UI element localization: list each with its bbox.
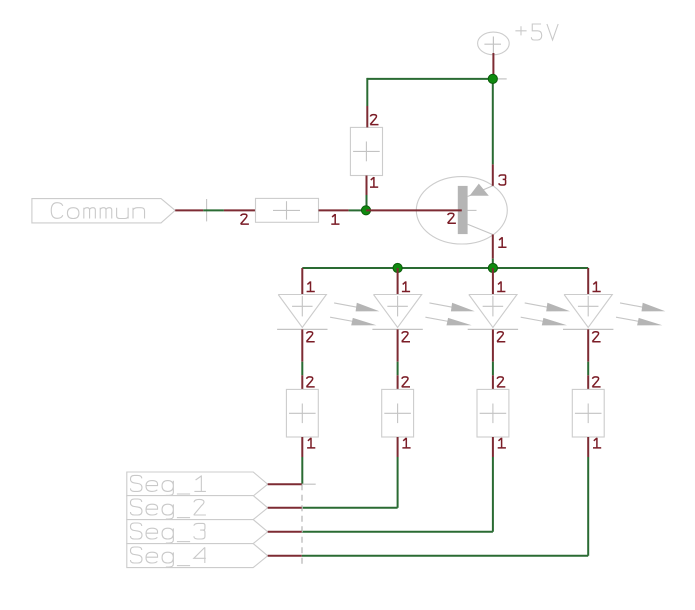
pin 2 wire of LED D4 (red): [587, 329, 589, 361]
LED D3 (diode symbol): [468, 295, 518, 330]
pin 1 label of Q1: [498, 237, 506, 247]
label Seg_4: [130, 547, 205, 567]
resistor R3 (segment series): [286, 389, 318, 437]
origin tick near Commun wire: [206, 199, 208, 221]
base pin wire of Q1 (red): [366, 209, 462, 211]
label Commun: [51, 203, 144, 219]
resistor R2 (horizontal, base series): [256, 198, 319, 222]
pin 1 wire of R2 (red): [319, 209, 349, 211]
wire R3 down (green): [301, 457, 303, 484]
pin 2 label of R1: [370, 115, 378, 125]
pin 2 wire of R5 (red): [492, 375, 494, 389]
pin 2 label of LED D4: [592, 332, 600, 342]
wire D4 to R6 (green): [587, 362, 589, 376]
pin 2 label of R6: [592, 377, 600, 387]
pin 1 label of R1: [370, 177, 378, 187]
terminal flag Seg_3: [127, 520, 268, 544]
wire Seg_2 pin (red): [268, 507, 302, 509]
pin 1 label of R3: [307, 438, 315, 448]
pin 2 label of LED D2: [402, 332, 410, 342]
wire Seg_4 row (green): [302, 555, 589, 557]
wire Commun to R2 (green): [203, 209, 224, 211]
wire rail down to transistor emitter (green): [492, 79, 494, 164]
pin 2 label of R2: [241, 214, 249, 224]
wire D1 to R3 (green): [301, 362, 303, 376]
pin 2 wire of R1 (red): [366, 106, 368, 127]
wire Seg_2 row (green): [302, 507, 398, 509]
wire R1 to base junction (green): [366, 195, 368, 210]
pin 1 wire of R1 (red): [366, 176, 368, 196]
resistor R6 (segment series): [572, 389, 604, 437]
pin 3 wire of Q1 emitter (red): [492, 164, 494, 185]
wire R5 down (green): [492, 457, 494, 532]
wire D2 to R4 (green): [397, 362, 399, 376]
transistor Q1 (PNP): [416, 177, 507, 244]
pin 1 wire of R6 (red): [587, 437, 589, 457]
light emission arrows of D2: [425, 303, 474, 326]
pin 2 wire of R4 (red): [397, 375, 399, 389]
LED D4 (diode symbol): [563, 295, 613, 330]
pin 2 wire of LED D1 (red): [301, 329, 303, 361]
pin 1 wire of LED D4 (red): [587, 268, 589, 295]
wire R2 to base junction (green): [349, 209, 362, 211]
pin 1 wire of LED D2 (red): [397, 268, 399, 295]
pin 1 wire of R4 (red): [397, 437, 399, 457]
wire Seg_1 pin (red): [268, 483, 302, 485]
light emission arrows of D3: [521, 303, 570, 326]
pin 2 wire of R3 (red): [301, 375, 303, 389]
pin 1 wire of LED D3 (red): [492, 268, 494, 295]
pin 1 label of LED D1: [307, 281, 315, 291]
pin 3 label of Q1: [499, 175, 506, 185]
wire D3 to R5 (green): [492, 362, 494, 376]
label +5V: [515, 24, 558, 40]
resistor R1 (vertical, base pull-up): [350, 127, 382, 175]
origin tick near Seg_1 wire: [302, 483, 316, 485]
wire R6 down (green): [587, 457, 589, 556]
terminal flag Seg_2: [127, 496, 268, 520]
wire +5V pin (red): [492, 53, 494, 80]
dashed guide line: [301, 484, 303, 565]
resistor R4 (segment series): [382, 389, 414, 437]
wire rail down-left leg (green): [366, 78, 368, 106]
pin 1 label of R6: [593, 438, 601, 448]
pin 1 label of LED D3: [497, 281, 505, 291]
wire Q1 collector to LED bus (green): [492, 259, 494, 268]
wire Commun pin (red): [175, 209, 203, 211]
terminal flag Seg_1: [127, 472, 268, 496]
pin 2 label of LED D1: [306, 332, 314, 342]
junction rail/+5V: [488, 74, 497, 83]
pin 1 wire of LED D1 (red): [301, 268, 303, 295]
pin 2 wire of LED D2 (red): [397, 329, 399, 361]
wire rail horizontal (green): [367, 78, 493, 80]
pin 2 wire of R2 (red): [224, 209, 256, 211]
pin 1 label of LED D2: [402, 281, 410, 291]
light emission arrows of D4: [616, 303, 665, 326]
wire Seg_3 pin (red): [268, 531, 302, 533]
pin 1 label of LED D4: [593, 281, 601, 291]
junction bus/LED2: [393, 263, 402, 272]
junction bus/collector: [488, 263, 497, 272]
wire R4 down (green): [397, 457, 399, 508]
wire LED anode bus (green): [302, 267, 588, 269]
pin 2 label of R5: [497, 377, 505, 387]
pin 1 label of R4: [402, 438, 410, 448]
terminal flag Seg_4: [127, 544, 268, 568]
pin 2 wire of LED D3 (red): [492, 329, 494, 361]
pin 2 label of R3: [306, 377, 314, 387]
pin 2 wire of R6 (red): [587, 375, 589, 389]
LED D1 (diode symbol): [277, 295, 327, 330]
wire Seg_4 pin (red): [268, 555, 302, 557]
pin 1 label of R2: [331, 214, 339, 224]
LED D2 (diode symbol): [372, 295, 422, 330]
pin 2 label of R4: [402, 377, 410, 387]
pin 2 label of Q1 (base): [448, 213, 456, 223]
power symbol +5V: [478, 32, 510, 79]
pin 1 wire of R5 (red): [492, 437, 494, 457]
wire Seg_3 row (green): [302, 531, 493, 533]
label Seg_2: [130, 499, 205, 519]
pin 2 label of LED D3: [497, 332, 505, 342]
label Seg_3: [130, 523, 204, 543]
label Seg_1: [130, 475, 205, 495]
junction base node: [361, 206, 370, 215]
resistor R5 (segment series): [477, 389, 509, 437]
light emission arrows of D1: [330, 303, 379, 326]
terminal flag Commun: [32, 199, 175, 223]
pin 1 wire of R3 (red): [301, 437, 303, 457]
pin 1 wire of Q1 collector (red): [492, 235, 494, 259]
pin 1 label of R5: [498, 438, 506, 448]
